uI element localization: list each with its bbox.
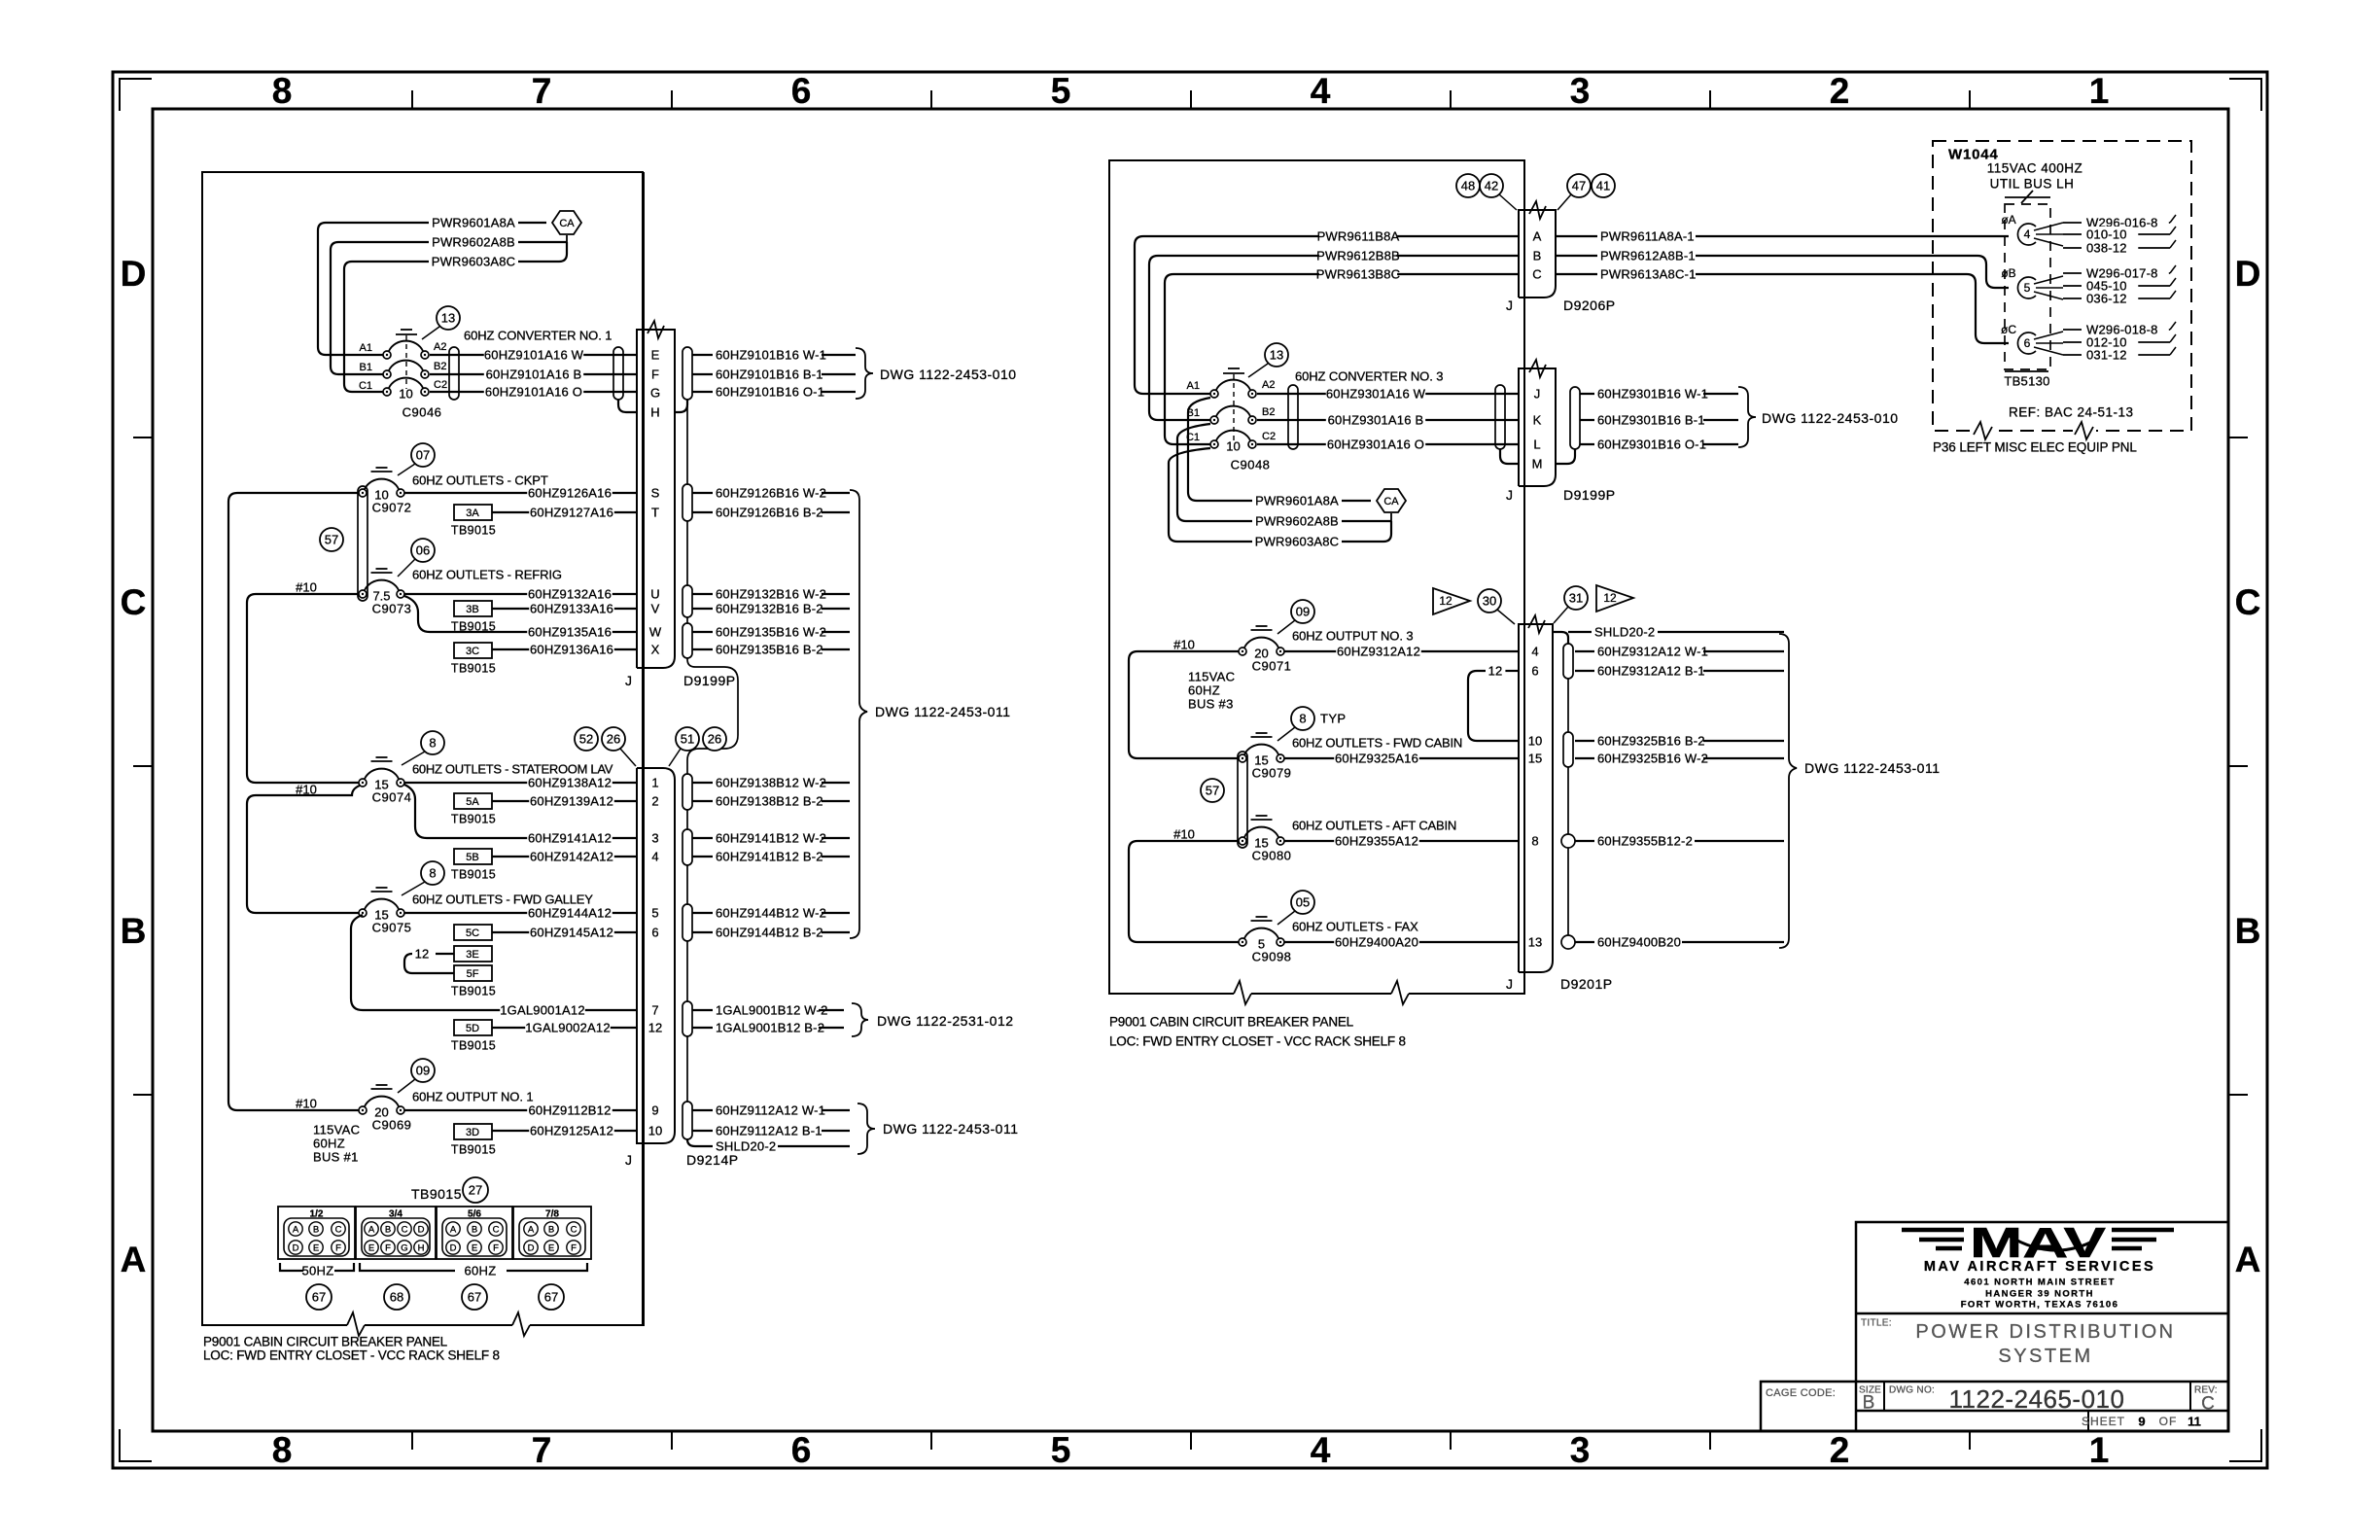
svg-text:FORT WORTH, TEXAS 76106: FORT WORTH, TEXAS 76106 <box>1961 1299 2119 1310</box>
svg-text:H: H <box>650 405 659 420</box>
svg-text:B2: B2 <box>1262 406 1275 418</box>
wire 60HZ9301A16 O <box>1257 437 1519 452</box>
svg-text:C9080: C9080 <box>1252 849 1292 863</box>
svg-text:4: 4 <box>1531 645 1538 659</box>
svg-text:D: D <box>418 1224 425 1235</box>
label 60HZ OUTLETS - FWD CABIN <box>1292 736 1462 751</box>
svg-text:60HZ CONVERTER NO. 1: 60HZ CONVERTER NO. 1 <box>464 329 612 343</box>
label MAV AIRCRAFT SERVICES <box>1924 1259 2155 1275</box>
svg-text:5D: 5D <box>466 1023 479 1034</box>
svg-text:60HZ9141B12 B-2: 60HZ9141B12 B-2 <box>716 850 823 864</box>
svg-text:B: B <box>121 911 147 951</box>
svg-text:F: F <box>571 1242 577 1253</box>
svg-text:60HZ OUTPUT NO. 1: 60HZ OUTPUT NO. 1 <box>412 1090 533 1104</box>
svg-text:60HZ9101A16 W: 60HZ9101A16 W <box>484 348 584 363</box>
zone numbers top <box>272 71 2110 111</box>
svg-text:SYSTEM: SYSTEM <box>1998 1346 2092 1367</box>
label 60HZ CONVERTER NO. 1 <box>464 329 612 343</box>
circuit breaker C9075 (15A) <box>359 888 411 935</box>
svg-text:C9079: C9079 <box>1252 766 1292 781</box>
svg-text:A: A <box>368 1224 375 1235</box>
svg-text:5: 5 <box>1051 1430 1071 1470</box>
label 60HZ OUTPUT NO. 1 <box>412 1090 533 1104</box>
svg-text:A2: A2 <box>434 341 446 353</box>
svg-text:C9074: C9074 <box>372 790 412 805</box>
svg-text:4: 4 <box>1311 1430 1331 1470</box>
bus bar symbol <box>2005 191 2050 203</box>
svg-text:05: 05 <box>1296 895 1310 910</box>
balloon 67 (group 1) <box>306 1284 332 1310</box>
svg-text:J: J <box>625 673 632 688</box>
left block right edge (panel boundary) <box>642 172 644 1325</box>
flag triangle 12 (left) <box>1433 588 1470 614</box>
svg-text:60HZ9112B12: 60HZ9112B12 <box>528 1103 611 1118</box>
svg-text:B: B <box>313 1224 319 1235</box>
svg-text:TYP: TYP <box>1320 712 1346 726</box>
pin 6 (D9201P) <box>1531 664 1538 679</box>
inner border frame <box>153 109 2228 1431</box>
wire 60HZ9301A16 B <box>1257 412 1519 428</box>
svg-text:S: S <box>651 486 660 501</box>
wire 60HZ9325B16 W-2 <box>1575 751 1784 766</box>
svg-text:60HZ9126B16 W-2: 60HZ9126B16 W-2 <box>716 486 826 501</box>
svg-text:1: 1 <box>2089 1430 2110 1470</box>
circuit breaker C9048 (60HZ converter no.3) <box>1186 368 1276 472</box>
wire 60HZ9133A16 <box>492 601 637 616</box>
svg-text:TITLE:: TITLE: <box>1861 1318 1892 1329</box>
label REF: BAC 24-51-13 <box>2009 405 2134 420</box>
terminal board TB5130 dashed box <box>2005 204 2050 369</box>
svg-text:60HZ OUTLETS - FWD CABIN: 60HZ OUTLETS - FWD CABIN <box>1292 736 1462 751</box>
svg-text:J: J <box>1506 976 1513 992</box>
circuit breaker C9079 (15A) <box>1239 733 1291 781</box>
svg-text:036-12: 036-12 <box>2086 292 2127 306</box>
connector D9214P (J) shell <box>637 768 675 1143</box>
terminal strip TB9015 header <box>411 1186 462 1202</box>
pin L <box>1533 437 1540 452</box>
balloon 57 (right) <box>1201 779 1224 802</box>
wire 60HZ9101B16 O-1 <box>692 384 856 400</box>
svg-text:E: E <box>313 1242 319 1253</box>
balloon 13 (C9048) <box>1248 343 1288 377</box>
bus wire #10 (outer, C9072 to C9069) <box>228 493 363 1110</box>
svg-text:DWG 1122-2453-011: DWG 1122-2453-011 <box>883 1121 1019 1137</box>
shield capsule (before connector J) <box>613 347 623 400</box>
pin X <box>651 643 660 657</box>
svg-text:#10: #10 <box>296 580 317 595</box>
svg-text:A: A <box>1533 229 1542 244</box>
wire 60HZ9132B16 B-2 <box>692 601 850 616</box>
svg-text:9: 9 <box>2138 1415 2145 1429</box>
svg-text:TB9015: TB9015 <box>451 1038 496 1052</box>
svg-text:C9048: C9048 <box>1231 458 1271 472</box>
svg-text:POWER DISTRIBUTION: POWER DISTRIBUTION <box>1915 1321 2175 1343</box>
svg-text:E: E <box>651 348 660 363</box>
pin 2 <box>651 794 658 809</box>
svg-text:27: 27 <box>469 1183 482 1198</box>
svg-text:B: B <box>1533 249 1542 263</box>
label address <box>1961 1277 2119 1310</box>
svg-text:C: C <box>1532 267 1541 282</box>
svg-text:MAV AIRCRAFT SERVICES: MAV AIRCRAFT SERVICES <box>1924 1259 2155 1275</box>
pin 1 <box>651 776 658 790</box>
svg-text:60HZ9135B16 W-2: 60HZ9135B16 W-2 <box>716 625 826 640</box>
wire #10 feed (LAV) <box>247 783 363 913</box>
svg-text:60HZ9136A16: 60HZ9136A16 <box>530 643 613 657</box>
svg-text:#10: #10 <box>296 783 317 797</box>
svg-text:60HZ9141B12 W-2: 60HZ9141B12 W-2 <box>716 831 826 846</box>
balloon 13 (C9046) <box>422 306 460 339</box>
svg-text:60HZ OUTLETS - STATEROOM LAV: 60HZ OUTLETS - STATEROOM LAV <box>412 762 613 777</box>
svg-text:F: F <box>493 1242 499 1253</box>
svg-text:42: 42 <box>1485 179 1498 193</box>
svg-text:U: U <box>650 587 659 602</box>
svg-text:60HZ9138B12 B-2: 60HZ9138B12 B-2 <box>716 794 823 809</box>
svg-text:60HZ9301A16 B: 60HZ9301A16 B <box>1328 413 1424 428</box>
svg-text:A1: A1 <box>1187 380 1200 392</box>
svg-text:10: 10 <box>1528 734 1542 749</box>
svg-text:B: B <box>1863 1393 1875 1414</box>
pin C <box>1532 267 1541 282</box>
svg-text:30: 30 <box>1483 594 1496 609</box>
shield capsule 5/6 <box>682 904 692 941</box>
svg-text:57: 57 <box>325 533 338 547</box>
svg-text:A: A <box>2235 1240 2261 1279</box>
svg-text:60HZ9325B16 W-2: 60HZ9325B16 W-2 <box>1597 752 1708 766</box>
label SIZE B <box>1859 1385 1881 1414</box>
svg-text:60HZ: 60HZ <box>313 1137 345 1151</box>
label J / D9199P (right) <box>1506 487 1616 503</box>
contact 5 (phase B) <box>2001 266 2063 299</box>
label 60HZ OUTLETS - FWD GALLEY <box>412 892 593 907</box>
wire 60HZ9139A12 <box>492 793 637 809</box>
svg-text:60HZ9355A12: 60HZ9355A12 <box>1335 834 1418 849</box>
wire #10 feed (output no.3) <box>1173 638 1195 652</box>
tall bracket to DWG 1122-2453-011 <box>850 490 1011 938</box>
zone letters left <box>121 254 147 1279</box>
balloon 48 <box>1456 174 1480 197</box>
svg-text:#10: #10 <box>1173 638 1195 652</box>
pin 6 <box>651 926 658 940</box>
wire PWR9603A8C <box>344 242 567 392</box>
tall bracket to DWG 1122-2453-011 (right) <box>1779 634 1941 948</box>
circuit breaker C9098 (5A) <box>1239 917 1291 964</box>
wire 60HZ9135B16 W-2 <box>692 624 850 640</box>
wire 60HZ9112A12 B-1 <box>692 1123 850 1138</box>
corner trim mark bottom-right <box>2229 1429 2261 1461</box>
P9001 cabin circuit breaker panel (left block outline) <box>202 172 644 1336</box>
wire 60HZ9144B12 B-2 <box>692 925 850 940</box>
balloon 47 <box>1557 174 1591 210</box>
svg-text:BUS #3: BUS #3 <box>1188 697 1234 712</box>
svg-text:60HZ9139A12: 60HZ9139A12 <box>530 794 613 809</box>
svg-text:6: 6 <box>791 1430 812 1470</box>
balloon 09 (C9069) <box>398 1059 435 1093</box>
svg-text:038-12: 038-12 <box>2086 241 2127 256</box>
svg-text:G: G <box>401 1242 407 1253</box>
pin 9 <box>651 1103 658 1118</box>
shield drain to pin H (left) <box>618 400 637 412</box>
pin W <box>649 625 662 640</box>
wire SHLD20-2 (right) <box>1553 624 1784 644</box>
wire 60HZ9101B16 B-1 <box>692 367 856 382</box>
svg-text:D: D <box>528 1242 535 1253</box>
svg-text:TB9015: TB9015 <box>451 661 496 675</box>
svg-text:4: 4 <box>1311 71 1331 111</box>
balloon 8 (C9075) <box>402 861 444 895</box>
svg-text:4: 4 <box>651 850 658 864</box>
brace to DWG 1122-2453-011 (output no.1) <box>857 1103 1019 1154</box>
svg-text:OF: OF <box>2159 1415 2178 1428</box>
svg-text:DWG 1122-2453-011: DWG 1122-2453-011 <box>875 704 1011 719</box>
pin 13 (D9201P) <box>1528 935 1542 950</box>
wire PWR9611B8A <box>1135 228 1519 394</box>
svg-text:F: F <box>385 1242 391 1253</box>
svg-text:E: E <box>472 1242 477 1253</box>
svg-text:D9214P: D9214P <box>686 1152 739 1168</box>
shield ring pin 13 <box>1561 935 1575 949</box>
wire 60HZ9136A16 <box>492 642 637 657</box>
shield capsule 4/6 <box>1563 644 1573 679</box>
connector D9199P (J) shell <box>637 321 675 668</box>
label J / D9199P <box>625 673 736 688</box>
svg-text:68: 68 <box>390 1290 403 1305</box>
balloon 30 <box>1478 589 1515 624</box>
wire 60HZ9132B16 W-2 <box>692 586 850 602</box>
wire 60HZ9301B16 O-1 <box>1580 437 1738 452</box>
wire 60HZ9400A20 <box>1284 934 1519 950</box>
cable bundle line (D9201P) <box>1567 679 1569 935</box>
svg-text:PWR9602A8B: PWR9602A8B <box>432 235 515 250</box>
svg-text:BUS #1: BUS #1 <box>313 1150 359 1165</box>
P9001 cabin circuit breaker panel (right block outline) <box>1109 160 1524 1004</box>
shield capsule 3/4 <box>682 829 692 865</box>
balloon 06 (C9073) <box>398 539 435 577</box>
balloon 26 (wire) <box>602 727 636 766</box>
svg-text:PWR9613B8C: PWR9613B8C <box>1316 267 1401 282</box>
wire 60HZ9135A16 (from C9073 output) <box>404 596 637 640</box>
svg-text:60HZ9112A12 B-1: 60HZ9112A12 B-1 <box>716 1124 822 1138</box>
input tie capsule C9079-C9080 <box>1238 752 1247 848</box>
pin 4 <box>651 850 658 864</box>
pin U <box>650 587 659 602</box>
balloon 41 <box>1592 174 1615 197</box>
wire 60HZ9138B12 W-2 <box>692 775 850 790</box>
svg-text:2: 2 <box>1830 1430 1850 1470</box>
svg-text:C: C <box>2235 582 2261 622</box>
balloon 27 (TB9015) <box>463 1177 488 1203</box>
svg-text:6: 6 <box>791 71 812 111</box>
svg-text:7: 7 <box>532 1430 552 1470</box>
svg-text:#10: #10 <box>296 1097 317 1111</box>
jumper wire 12 (pins 6-10) <box>1468 663 1519 741</box>
zone ticks bottom <box>412 1431 1970 1450</box>
svg-text:J: J <box>1506 297 1513 313</box>
svg-text:B: B <box>548 1224 554 1235</box>
svg-text:60HZ9101A16 B: 60HZ9101A16 B <box>486 367 582 382</box>
svg-text:1122-2465-010: 1122-2465-010 <box>1949 1384 2125 1414</box>
balloon 42 <box>1480 174 1517 210</box>
wire PWR9612B8B <box>1149 248 1519 420</box>
svg-text:C1: C1 <box>359 380 372 392</box>
svg-text:60HZ9301A16 W: 60HZ9301A16 W <box>1326 387 1426 402</box>
shield capsule 9/10 <box>682 1102 692 1139</box>
pin K <box>1533 413 1542 428</box>
cable bundle line (right of connector) <box>687 400 738 1102</box>
bracket 60HZ <box>360 1263 587 1278</box>
svg-text:CA: CA <box>1383 496 1399 507</box>
pin 15 (D9201P) <box>1528 752 1542 766</box>
title POWER DISTRIBUTION SYSTEM <box>1915 1321 2175 1367</box>
balloon 26 (cable) <box>703 727 726 751</box>
svg-text:P9001 CABIN CIRCUIT BREAKER PA: P9001 CABIN CIRCUIT BREAKER PANEL <box>203 1335 448 1349</box>
svg-text:26: 26 <box>607 732 620 747</box>
svg-text:HANGER 39 NORTH: HANGER 39 NORTH <box>1985 1288 2094 1299</box>
wire PWR9602A8B <box>331 234 567 374</box>
wire 60HZ9101A16 O <box>430 384 637 400</box>
svg-text:8: 8 <box>1531 834 1538 849</box>
zone numbers bottom <box>272 1430 2110 1470</box>
svg-text:C2: C2 <box>1262 431 1276 442</box>
shield capsule (before D9199P) <box>1495 385 1505 449</box>
wire 60HZ9325A16 <box>1284 751 1519 766</box>
svg-text:C9072: C9072 <box>372 501 412 515</box>
svg-text:øA: øA <box>2001 213 2015 227</box>
svg-text:60HZ OUTPUT NO. 3: 60HZ OUTPUT NO. 3 <box>1292 629 1413 644</box>
wire 1GAL9001B12 W-2 <box>692 1002 844 1018</box>
svg-text:10: 10 <box>648 1124 662 1138</box>
svg-text:60HZ OUTLETS - REFRIG: 60HZ OUTLETS - REFRIG <box>412 568 562 582</box>
svg-text:7: 7 <box>651 1003 658 1018</box>
svg-text:PWR9602A8B: PWR9602A8B <box>1255 514 1339 529</box>
svg-text:A1: A1 <box>360 342 372 354</box>
svg-text:G: G <box>650 386 660 401</box>
svg-text:60HZ9400A20: 60HZ9400A20 <box>1335 935 1418 950</box>
svg-text:1GAL9001B12 B-2: 1GAL9001B12 B-2 <box>716 1021 824 1035</box>
wire 60HZ9355B12-2 <box>1575 833 1784 849</box>
pin H <box>650 405 659 420</box>
shield capsule (after D9199P) <box>1570 387 1580 449</box>
svg-text:DWG 1122-2453-011: DWG 1122-2453-011 <box>1804 760 1941 776</box>
connector D9199P (right, J) shell <box>1519 360 1556 486</box>
svg-text:J: J <box>625 1152 632 1168</box>
shield drain pin H (right) <box>675 400 687 412</box>
wire 60HZ9126A16 <box>404 485 637 501</box>
label TB5130 <box>2004 371 2049 389</box>
label REV C <box>2194 1385 2218 1415</box>
svg-text:J: J <box>1534 387 1541 402</box>
svg-text:13: 13 <box>1270 348 1283 363</box>
terminal block tap 3D <box>451 1124 496 1156</box>
svg-text:7: 7 <box>532 71 552 111</box>
svg-text:1GAL9001B12 W-2: 1GAL9001B12 W-2 <box>716 1003 828 1018</box>
shield capsule 10/15 <box>1563 732 1573 767</box>
svg-text:8: 8 <box>429 736 436 751</box>
shield capsule 7/12 <box>682 1001 692 1036</box>
wires W296-017-8 / 045-10 / 036-12 <box>2063 265 2176 306</box>
svg-text:E: E <box>368 1242 374 1253</box>
label SHEET 9 OF 11 <box>2082 1415 2201 1429</box>
svg-text:PWR9612A8B-1: PWR9612A8B-1 <box>1600 249 1696 263</box>
svg-text:C9046: C9046 <box>402 405 442 420</box>
bus wire (C9080 to C9098) <box>1129 841 1242 942</box>
shield capsule (C9048 output) <box>1288 385 1298 449</box>
svg-text:06: 06 <box>416 543 430 558</box>
svg-text:60HZ9141A12: 60HZ9141A12 <box>528 831 612 846</box>
svg-text:1GAL9001A12: 1GAL9001A12 <box>500 1003 585 1018</box>
label 60HZ OUTLETS - AFT CABIN <box>1292 819 1456 833</box>
svg-text:13: 13 <box>441 311 455 326</box>
wire 60HZ9112B12 <box>404 1102 637 1118</box>
wire 60HZ9138A12 <box>404 775 637 790</box>
svg-text:C2: C2 <box>434 379 447 391</box>
svg-text:26: 26 <box>708 732 721 747</box>
svg-text:60HZ9132B16 B-2: 60HZ9132B16 B-2 <box>716 602 823 616</box>
svg-text:60HZ9145A12: 60HZ9145A12 <box>530 926 613 940</box>
svg-text:031-12: 031-12 <box>2086 348 2127 363</box>
svg-text:1: 1 <box>2089 71 2110 111</box>
right panel name label <box>1109 1015 1406 1049</box>
circuit breaker C9069 (20A) <box>359 1085 411 1133</box>
svg-text:A2: A2 <box>1262 379 1275 391</box>
svg-text:5A: 5A <box>466 796 479 808</box>
label 60HZ OUTLETS - REFRIG <box>412 568 562 582</box>
terminal block tap 3C <box>451 643 496 675</box>
svg-text:DWG 1122-2531-012: DWG 1122-2531-012 <box>877 1013 1014 1029</box>
svg-text:11: 11 <box>2187 1415 2201 1429</box>
svg-text:LOC: FWD ENTRY CLOSET - VCC RA: LOC: FWD ENTRY CLOSET - VCC RACK SHELF 8 <box>1109 1034 1406 1049</box>
svg-text:8: 8 <box>272 1430 293 1470</box>
svg-text:F: F <box>335 1242 341 1253</box>
svg-text:L: L <box>1533 437 1540 452</box>
svg-text:A: A <box>293 1224 299 1235</box>
left panel name label <box>203 1335 500 1363</box>
svg-text:C9071: C9071 <box>1252 659 1292 674</box>
svg-text:67: 67 <box>312 1290 326 1305</box>
svg-text:60HZ9112A12 W-1: 60HZ9112A12 W-1 <box>716 1103 825 1118</box>
svg-text:H: H <box>418 1242 425 1253</box>
svg-text:60HZ9325A16: 60HZ9325A16 <box>1335 752 1418 766</box>
balloon 09 (C9071) <box>1277 600 1314 634</box>
svg-text:60HZ9126A16: 60HZ9126A16 <box>528 486 612 501</box>
svg-text:W: W <box>649 625 662 640</box>
svg-text:E: E <box>548 1242 554 1253</box>
svg-text:C: C <box>335 1224 342 1235</box>
label J / D9214P <box>625 1152 739 1168</box>
svg-text:PWR9613A8C-1: PWR9613A8C-1 <box>1600 267 1697 282</box>
svg-text:A: A <box>528 1224 535 1235</box>
svg-text:60HZ: 60HZ <box>1188 683 1220 698</box>
svg-text:9: 9 <box>651 1103 658 1118</box>
wire PWR9602A8B (to CA) <box>1177 424 1391 529</box>
svg-text:M: M <box>1532 457 1543 472</box>
svg-text:13: 13 <box>1528 935 1542 950</box>
svg-text:B2: B2 <box>434 361 446 372</box>
svg-text:12: 12 <box>415 947 430 962</box>
svg-text:PWR9603A8C: PWR9603A8C <box>432 255 516 269</box>
circuit breaker C9080 (15A) <box>1239 816 1291 863</box>
wire 60HZ9101A16 W <box>430 347 637 363</box>
svg-text:2: 2 <box>651 794 658 809</box>
circuit breaker C9072 (10A) <box>359 468 411 515</box>
svg-text:W1044: W1044 <box>1948 146 1999 162</box>
wire 1GAL9002A12 <box>492 1020 637 1035</box>
zone ticks left <box>133 437 153 1095</box>
svg-text:B: B <box>385 1224 391 1235</box>
svg-text:12: 12 <box>648 1021 662 1035</box>
svg-text:60HZ9144B12 W-2: 60HZ9144B12 W-2 <box>716 906 826 921</box>
svg-text:TB9015: TB9015 <box>451 867 496 881</box>
